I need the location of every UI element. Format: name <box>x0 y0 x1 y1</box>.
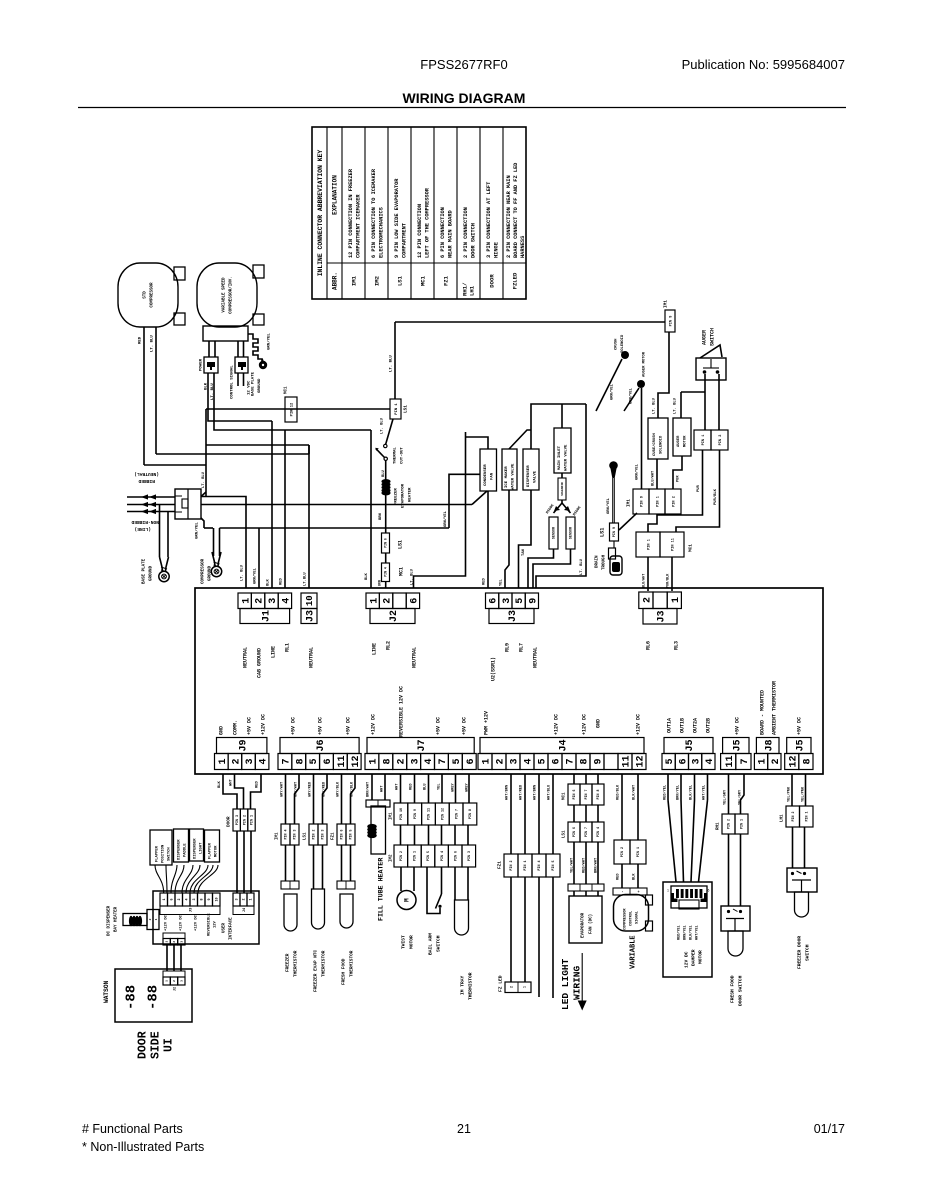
svg-text:DOOR SWITCH: DOOR SWITCH <box>738 975 744 1006</box>
svg-text:J2: J2 <box>389 610 400 622</box>
evap fan wires 2 <box>573 891 575 896</box>
svg-text:INLINE CONNECTOR ABBREVIATION: INLINE CONNECTOR ABBREVIATION KEY <box>317 150 324 277</box>
svg-text:BRN/YEL: BRN/YEL <box>683 925 688 940</box>
svg-text:PUR: PUR <box>677 475 681 482</box>
svg-text:4: 4 <box>282 598 293 604</box>
svg-text:12 PIN CONNECTION: 12 PIN CONNECTION <box>417 204 423 258</box>
svg-text:5: 5 <box>452 758 463 764</box>
svg-text:BLK: BLK <box>267 578 271 586</box>
power cord line 1 <box>127 496 175 498</box>
svg-text:FZ1: FZ1 <box>332 832 336 840</box>
ground zigzag wire <box>248 334 262 362</box>
svg-text:PIN 9: PIN 9 <box>640 496 644 507</box>
svg-text:VALVE: VALVE <box>534 470 538 483</box>
svg-text:J4: J4 <box>559 739 570 751</box>
svg-text:IM1: IM1 <box>390 812 394 820</box>
svg-text:IM1: IM1 <box>627 499 632 507</box>
watson J2 connector <box>163 971 185 977</box>
svg-text:BRN/WHT: BRN/WHT <box>366 781 371 797</box>
inverter box <box>203 326 248 341</box>
svg-text:POSITION: POSITION <box>162 844 166 863</box>
FZ1 pin6/pin5 connector <box>337 824 346 845</box>
svg-text:PIN 5: PIN 5 <box>552 860 556 870</box>
svg-text:+5V DC: +5V DC <box>318 717 324 735</box>
wire grn/yel J1 pin2 <box>258 528 260 588</box>
svg-text:1: 1 <box>163 898 167 900</box>
pin 2 box auger <box>711 430 728 450</box>
svg-text:PIN 8: PIN 8 <box>468 809 472 819</box>
svg-text:BOARD CONNECT TO FF AND FZ LED: BOARD CONNECT TO FF AND FZ LED <box>513 163 519 258</box>
svg-text:REVERSIBLE 12V DC: REVERSIBLE 12V DC <box>399 686 405 737</box>
svg-text:RED: RED <box>410 783 414 790</box>
svg-text:COMPRESSOR: COMPRESSOR <box>151 282 155 308</box>
red wire std compressor <box>143 327 145 465</box>
svg-text:UI: UI <box>163 1038 176 1052</box>
svg-text:RL3: RL3 <box>674 641 680 650</box>
J9 connector <box>215 754 229 770</box>
svg-text:7: 7 <box>566 758 577 764</box>
svg-text:3: 3 <box>410 758 421 764</box>
svg-text:PIN 2: PIN 2 <box>621 847 625 857</box>
svg-text:POWER: POWER <box>200 358 204 371</box>
svg-text:PIN 2: PIN 2 <box>399 851 403 861</box>
J3b connector bar <box>489 609 534 624</box>
yel wire ice maker to J3 <box>505 490 509 588</box>
svg-text:AMBIENT THERMISTOR: AMBIENT THERMISTOR <box>772 681 778 735</box>
svg-text:COMPARTMENT: COMPARTMENT <box>402 222 408 258</box>
svg-text:+12V DC: +12V DC <box>261 714 267 735</box>
variable speed compressor body <box>197 263 257 327</box>
svg-text:FZ1: FZ1 <box>443 275 450 286</box>
freezer door switch plunger <box>795 892 809 917</box>
lt blu riser to pin1 <box>394 322 396 399</box>
svg-text:3: 3 <box>193 898 197 900</box>
svg-text:HARNESS: HARNESS <box>520 235 526 258</box>
main inlet top wire <box>561 404 563 428</box>
svg-text:DISPENSER: DISPENSER <box>527 465 531 487</box>
fz1 wires upper <box>510 774 512 854</box>
neutral bus through plug <box>201 504 472 506</box>
svg-text:PIN 6: PIN 6 <box>340 830 344 840</box>
IM1 connector top area <box>633 489 649 514</box>
svg-text:+5V DC: +5V DC <box>797 717 803 735</box>
bail arm switch symbol <box>427 867 440 914</box>
svg-text:+5V DC: +5V DC <box>291 717 297 735</box>
svg-text:6: 6 <box>170 898 174 900</box>
svg-text:COMPRESSOR: COMPRESSOR <box>202 558 206 584</box>
svg-text:THERMISTOR: THERMISTOR <box>322 950 327 977</box>
svg-text:4: 4 <box>524 758 535 764</box>
control signal stubs <box>237 373 239 386</box>
svg-text:CUBE/CRUSH: CUBE/CRUSH <box>652 432 657 456</box>
svg-text:DOOR: DOOR <box>137 1031 150 1059</box>
diagonal drain to IM1 <box>619 513 637 530</box>
fill tube heater body <box>371 806 386 854</box>
fz led bar <box>505 982 531 993</box>
wire auger switch to motor <box>704 374 706 430</box>
svg-text:FREEZER DOOR: FREEZER DOOR <box>797 936 803 969</box>
MC1 connector mid <box>636 532 660 557</box>
im tray bulb <box>455 900 469 935</box>
svg-text:+12V DC: +12V DC <box>195 914 199 931</box>
svg-text:FREEZER: FREEZER <box>395 488 399 505</box>
svg-text:BRN: BRN <box>379 512 383 520</box>
svg-text:PIN 2: PIN 2 <box>312 830 316 840</box>
svg-text:8: 8 <box>200 898 204 900</box>
IM2 connector block <box>394 845 408 867</box>
STD compressor mounting tab lower <box>174 313 185 325</box>
svg-text:BAIL ARM: BAIL ARM <box>428 933 434 955</box>
svg-text:PIN 1: PIN 1 <box>702 435 706 446</box>
ice maker water valve box <box>502 449 517 490</box>
svg-text:NEAR MAIN BOARD: NEAR MAIN BOARD <box>448 210 454 258</box>
sensor box left <box>549 517 558 549</box>
svg-text:LT. BLU: LT. BLU <box>653 397 657 414</box>
svg-text:SWITCH: SWITCH <box>805 944 811 961</box>
wire lt.blu J1 pin1 <box>201 497 246 589</box>
svg-text:DRAIN: DRAIN <box>596 555 600 568</box>
J3b connector pins <box>486 593 499 609</box>
power connector symbol <box>204 357 218 373</box>
svg-text:IM2: IM2 <box>374 275 381 286</box>
svg-text:BLK: BLK <box>633 873 637 880</box>
svg-text:WHT/BLU: WHT/BLU <box>547 785 552 800</box>
svg-text:9: 9 <box>594 758 605 764</box>
wire mc1 pin12 bus <box>206 408 390 410</box>
svg-text:(LINE): (LINE) <box>134 526 151 532</box>
blk wire J9 pin1 <box>223 774 237 809</box>
svg-text:LS1: LS1 <box>398 540 404 549</box>
svg-text:RL9: RL9 <box>505 643 511 652</box>
fz led wires <box>510 877 512 982</box>
svg-text:NON-RIBBED: NON-RIBBED <box>131 519 159 525</box>
svg-text:WHT: WHT <box>230 778 234 786</box>
svg-text:STD: STD <box>144 291 148 299</box>
svg-text:EVAPORATOR: EVAPORATOR <box>402 483 406 508</box>
svg-text:PIN 4: PIN 4 <box>384 567 388 577</box>
svg-text:PIN 6: PIN 6 <box>384 538 388 548</box>
svg-text:IM1: IM1 <box>351 275 358 286</box>
svg-text:GND: GND <box>219 726 225 735</box>
svg-text:RED: RED <box>483 577 487 585</box>
lt blu long right vertical <box>536 404 586 588</box>
svg-text:PIN 1: PIN 1 <box>395 403 399 415</box>
svg-text:6: 6 <box>489 598 500 604</box>
svg-text:GROUND: GROUND <box>150 565 154 581</box>
svg-text:PIN 9: PIN 9 <box>413 809 417 819</box>
svg-text:GRN/YEL: GRN/YEL <box>443 510 448 527</box>
svg-text:REVERSIBLE: REVERSIBLE <box>208 912 212 936</box>
svg-text:WHT/BRN: WHT/BRN <box>533 785 538 800</box>
svg-text:PIN 11: PIN 11 <box>671 538 675 551</box>
icemaker inter wires <box>400 825 402 845</box>
ls1 pin1 inline box <box>390 399 401 419</box>
user interface board <box>153 891 259 944</box>
svg-text:PADDLE: PADDLE <box>184 843 188 857</box>
svg-text:3: 3 <box>510 758 521 764</box>
lt blu wire std compressor <box>155 327 157 454</box>
svg-text:SENSOR: SENSOR <box>553 526 557 539</box>
freezer evap wires lower <box>313 845 315 889</box>
J3a bar <box>301 609 317 624</box>
cube/crush solenoid box <box>648 418 668 459</box>
svg-text:10: 10 <box>305 595 315 606</box>
svg-text:+5V DC: +5V DC <box>462 717 468 735</box>
svg-text:LED LIGHT: LED LIGHT <box>560 958 571 1010</box>
comp ctrl tab upper <box>646 895 653 905</box>
svg-text:GRN/YEL: GRN/YEL <box>610 383 615 400</box>
svg-text:2: 2 <box>243 898 247 900</box>
svg-text:9: 9 <box>208 898 212 900</box>
svg-text:LT. BLU: LT. BLU <box>151 335 155 352</box>
svg-text:# Functional Parts: # Functional Parts <box>82 1122 183 1136</box>
svg-text:AUGER: AUGER <box>702 330 708 345</box>
DOOR connector <box>233 809 240 831</box>
svg-text:2: 2 <box>173 941 176 943</box>
svg-text:FAN: FAN <box>491 472 495 480</box>
svg-text:BRN: BRN <box>378 580 382 586</box>
svg-text:11: 11 <box>622 755 633 767</box>
svg-text:CRUSH: CRUSH <box>615 338 619 350</box>
svg-text:12: 12 <box>636 755 647 767</box>
svg-text:MOTOR: MOTOR <box>684 435 688 447</box>
svg-text:8: 8 <box>382 758 393 764</box>
seven segment display 2 <box>146 985 162 1010</box>
svg-text:2: 2 <box>496 758 507 764</box>
svg-text:GROUND: GROUND <box>209 565 213 581</box>
svg-text:NEUTRAL: NEUTRAL <box>309 647 315 668</box>
svg-text:ELECTROMECHANICS: ELECTROMECHANICS <box>379 206 385 258</box>
sensor box right <box>566 517 575 549</box>
svg-text:J2: J2 <box>173 987 177 991</box>
svg-text:GRY/WHT: GRY/WHT <box>280 781 285 797</box>
control signal connector symbol <box>235 357 248 373</box>
svg-text:YEL/PNK: YEL/PNK <box>787 786 792 802</box>
svg-text:PIN 10: PIN 10 <box>399 808 403 820</box>
svg-text:2 PIN CONNECTION: 2 PIN CONNECTION <box>463 207 469 258</box>
svg-text:2: 2 <box>771 758 782 764</box>
svg-text:BLK/YEL: BLK/YEL <box>689 785 694 800</box>
diode labels <box>546 503 556 515</box>
auger motor terminal <box>637 380 645 388</box>
comp ctrl pin boxes <box>614 840 630 864</box>
svg-text:1: 1 <box>241 598 252 604</box>
fresh food door switch box <box>721 906 750 931</box>
freezer evaporator heater coil <box>381 479 390 484</box>
flapper motor box <box>205 830 220 862</box>
freezer thermistor wires upper <box>285 774 287 824</box>
mc1 ls1 inter wires <box>573 805 575 822</box>
svg-text:5: 5 <box>515 598 526 604</box>
svg-text:SOLENOID: SOLENOID <box>660 435 664 454</box>
J3c connector pins <box>639 592 653 609</box>
svg-text:RED/BLK: RED/BLK <box>616 784 621 800</box>
svg-text:PIN 12: PIN 12 <box>440 808 444 820</box>
svg-text:FPSS2677RF0: FPSS2677RF0 <box>420 57 507 72</box>
UI J3 connector <box>160 893 168 906</box>
svg-text:6 PIN CONNECTION: 6 PIN CONNECTION <box>440 207 446 258</box>
svg-text:1: 1 <box>482 758 493 764</box>
svg-text:VARIABLE: VARIABLE <box>630 935 638 969</box>
svg-text:PWM +12V: PWM +12V <box>484 711 490 735</box>
svg-text:RH1/: RH1/ <box>462 282 469 296</box>
svg-text:+12V DC: +12V DC <box>554 714 560 735</box>
compressor ground wire <box>201 518 204 528</box>
freezer thermistor wires lower <box>285 845 287 881</box>
red wire condenser fan to J3 <box>487 491 489 588</box>
wire auger switch to pin2 <box>718 374 720 430</box>
svg-text:LT. BLU: LT. BLU <box>674 397 678 414</box>
svg-text:-: - <box>621 890 625 892</box>
wire lt blu vertical (plug to bus) <box>205 409 207 497</box>
svg-text:1: 1 <box>250 898 254 900</box>
led wires continuing <box>538 877 540 997</box>
svg-text:DAMPER: DAMPER <box>691 949 697 966</box>
svg-text:BLU: BLU <box>382 469 386 477</box>
tan wire dispenser to J3 <box>519 490 532 588</box>
diode split <box>561 500 563 503</box>
svg-text:1: 1 <box>671 597 682 603</box>
svg-text:SENSOR: SENSOR <box>570 526 574 539</box>
svg-text:M: M <box>404 898 411 902</box>
svg-text:LS1: LS1 <box>304 832 308 840</box>
rh1 wires <box>728 774 730 814</box>
auger motor box <box>673 418 691 456</box>
svg-text:PIN 4: PIN 4 <box>440 851 444 861</box>
wire power blk bus <box>208 373 272 421</box>
svg-text:SWITCH: SWITCH <box>436 935 442 952</box>
svg-text:NEUTRAL: NEUTRAL <box>243 647 249 668</box>
svg-text:PIN 2: PIN 2 <box>719 435 723 446</box>
wire power ltblu bus <box>214 373 371 430</box>
svg-text:GROUND: GROUND <box>258 378 262 393</box>
svg-text:RED/YEL: RED/YEL <box>663 785 668 800</box>
svg-text:9: 9 <box>528 598 539 604</box>
svg-text:J9: J9 <box>238 739 249 751</box>
wire lt.blu J3 pin10 <box>308 445 310 588</box>
svg-text:J3: J3 <box>189 907 193 912</box>
title underline rule <box>78 107 846 109</box>
svg-text:THERMISTOR: THERMISTOR <box>294 950 299 977</box>
svg-text:PIN 1: PIN 1 <box>804 812 808 822</box>
svg-text:PIN 5: PIN 5 <box>349 830 353 840</box>
svg-text:GRN/YEL: GRN/YEL <box>253 567 258 584</box>
svg-text:MC1: MC1 <box>689 544 694 552</box>
svg-text:MOTOR: MOTOR <box>698 950 704 964</box>
svg-text:GRN/YEL: GRN/YEL <box>629 387 634 404</box>
svg-text:WHT/YEL: WHT/YEL <box>695 925 700 940</box>
UI bottom connector <box>163 933 185 939</box>
svg-text:PIN 2: PIN 2 <box>243 815 247 825</box>
lt blu long vertical <box>414 432 466 588</box>
table grid lines <box>326 127 328 299</box>
svg-text:NEUTRAL: NEUTRAL <box>412 647 418 668</box>
svg-text:1: 1 <box>758 758 769 764</box>
LS1 pin2/pin3 connector <box>309 824 318 845</box>
svg-text:WIRING: WIRING <box>572 965 583 1000</box>
svg-text:RED: RED <box>617 873 621 880</box>
svg-text:2: 2 <box>173 980 176 982</box>
svg-text:2: 2 <box>383 598 394 604</box>
fill tube connector <box>366 800 390 807</box>
svg-text:5: 5 <box>309 758 320 764</box>
svg-text:FLAPPER: FLAPPER <box>156 845 160 862</box>
svg-text:AUGER: AUGER <box>677 435 681 447</box>
svg-text:PIN 1: PIN 1 <box>637 847 641 857</box>
svg-text:PIN 4: PIN 4 <box>538 860 542 870</box>
svg-text:FZLED: FZLED <box>512 272 519 289</box>
red wire J9 pin4 <box>251 774 262 809</box>
svg-text:MC1: MC1 <box>399 567 405 576</box>
lh1 switch wires <box>792 827 794 868</box>
svg-text:LH1: LH1 <box>781 814 785 822</box>
svg-text:PIN 3: PIN 3 <box>467 851 471 861</box>
svg-text:FZ1: FZ1 <box>498 861 503 869</box>
svg-text:+5V DC: +5V DC <box>346 717 352 735</box>
svg-text:(NEUTRAL): (NEUTRAL) <box>134 471 159 477</box>
svg-text:LT. BLU: LT. BLU <box>202 471 206 488</box>
dispenser valve box <box>523 449 539 490</box>
svg-text:LT. BLU: LT. BLU <box>241 564 245 581</box>
svg-text:PIN 6: PIN 6 <box>572 827 576 837</box>
svg-text:CONDENSER: CONDENSER <box>484 464 488 486</box>
svg-text:PIN 8: PIN 8 <box>596 790 600 800</box>
svg-text:12: 12 <box>351 755 362 767</box>
svg-text:MC1: MC1 <box>285 386 289 394</box>
svg-text:PIN 1: PIN 1 <box>251 815 255 825</box>
svg-text:THERMISTOR: THERMISTOR <box>350 950 355 977</box>
J5a connector <box>662 754 675 770</box>
flapper wiring harness <box>155 865 164 893</box>
svg-text:1: 1 <box>155 918 158 920</box>
svg-text:NEUTRAL: NEUTRAL <box>533 647 539 668</box>
svg-text:11: 11 <box>725 755 736 767</box>
svg-text:TAN: TAN <box>522 548 526 556</box>
svg-text:LT.BLU: LT.BLU <box>304 572 308 586</box>
svg-text:6: 6 <box>708 889 710 893</box>
svg-text:3: 3 <box>236 898 240 900</box>
svg-text:GRY/BLK: GRY/BLK <box>336 781 341 797</box>
svg-text:PIN 9: PIN 9 <box>669 316 673 327</box>
svg-text:TROUGH: TROUGH <box>603 554 607 570</box>
svg-text:CONTROL SIGNAL: CONTROL SIGNAL <box>231 365 235 399</box>
J5c connector <box>785 754 799 770</box>
im tray wires <box>454 867 456 900</box>
plug body <box>175 489 201 519</box>
STD compressor body <box>118 263 178 327</box>
svg-text:J7: J7 <box>417 739 428 751</box>
svg-text:1: 1 <box>369 758 380 764</box>
svg-text:2: 2 <box>232 758 243 764</box>
svg-text:2: 2 <box>510 986 514 988</box>
power cord line 3 <box>127 511 175 513</box>
svg-text:THERMAL: THERMAL <box>394 447 398 464</box>
svg-text:BLU/WHT: BLU/WHT <box>651 470 656 486</box>
mc1 pin4 inline box <box>385 553 387 563</box>
svg-text:4: 4 <box>424 758 435 764</box>
svg-text:2 PIN CONNECTION NEAR MAIN: 2 PIN CONNECTION NEAR MAIN <box>506 175 512 258</box>
svg-text:PIN 2: PIN 2 <box>791 812 795 822</box>
svg-text:PIN 4: PIN 4 <box>596 827 600 837</box>
svg-text:IM2: IM2 <box>390 854 394 862</box>
svg-text:8: 8 <box>580 758 591 764</box>
svg-text:RL7: RL7 <box>519 643 525 652</box>
twist motor <box>397 891 416 910</box>
fresh food wires upper <box>341 774 343 824</box>
grn/yel wire to IM1 pin9 <box>641 388 643 489</box>
J6 connector <box>278 754 292 770</box>
svg-text:HEATER: HEATER <box>409 487 413 502</box>
